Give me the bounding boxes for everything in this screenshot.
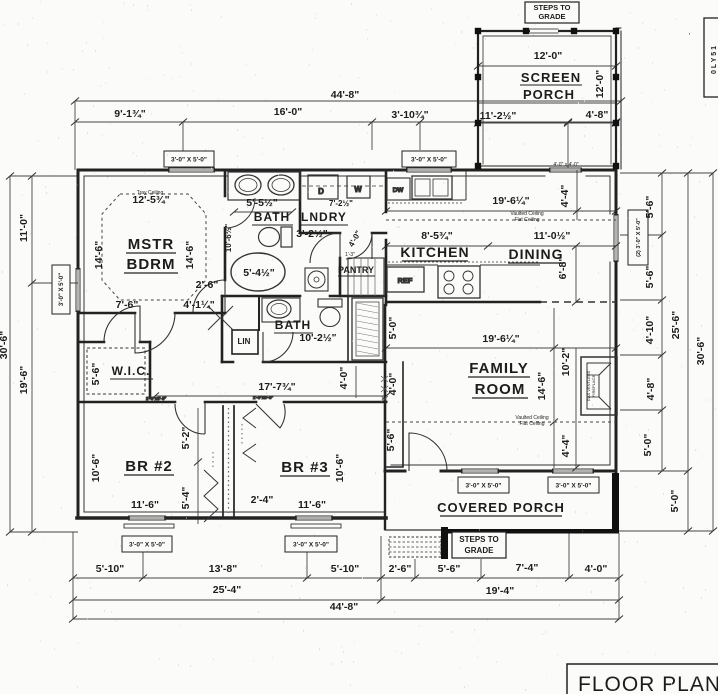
- window labels covered porch: [458, 477, 509, 493]
- svg-text:11'-0": 11'-0": [18, 214, 30, 242]
- wall bath2 bottom: [222, 361, 386, 364]
- svg-text:12'-0": 12'-0": [594, 70, 606, 99]
- svg-text:3'-0" X 5'-0": 3'-0" X 5'-0": [129, 541, 165, 548]
- svg-text:ROOM: ROOM: [475, 381, 526, 398]
- mbath vanity counter: [228, 172, 300, 200]
- mbath sink 2: [268, 175, 294, 195]
- svg-text:DINING: DINING: [509, 246, 564, 262]
- svg-text:44'-8": 44'-8": [330, 601, 359, 613]
- svg-text:KITCHEN: KITCHEN: [400, 244, 469, 260]
- svg-text:': ': [689, 33, 690, 40]
- window kitchen top: [406, 167, 452, 169]
- svg-text:4'-0" x 4'-0": 4'-0" x 4'-0": [553, 162, 578, 168]
- closet bifold BR2: [204, 470, 218, 522]
- screen porch line under PORCH: [478, 102, 616, 104]
- dim 8-5 / 11-0 row: [386, 245, 616, 247]
- svg-text:Tray Ceiling: Tray Ceiling: [137, 190, 164, 196]
- wall top exterior: [78, 169, 616, 172]
- covered porch bottom slab edge: [443, 529, 619, 534]
- window label BR2 bottom: [122, 536, 172, 552]
- right dim column inner: [661, 173, 663, 471]
- revision block top right: [704, 18, 718, 97]
- svg-text:PANTRY: PANTRY: [338, 265, 374, 275]
- sill BR2: [124, 524, 174, 528]
- wall bath / laundry vertical: [299, 170, 302, 233]
- wall mstr bdrm bottom: [78, 312, 225, 315]
- dimension lines group: [6, 63, 717, 623]
- svg-text:5'-6": 5'-6": [644, 266, 656, 289]
- dim line top row2: [75, 121, 616, 123]
- svg-text:3'-0" X 5'-0": 3'-0" X 5'-0": [556, 482, 592, 489]
- svg-text:6'-8": 6'-8": [557, 257, 569, 280]
- svg-text:GRADE: GRADE: [538, 12, 565, 21]
- BR2 dim vertical 5-2/5-4: [197, 408, 199, 524]
- steps to grade box top: [525, 2, 579, 23]
- svg-text:PORCH: PORCH: [523, 87, 575, 102]
- svg-text:16'-0": 16'-0": [274, 106, 303, 118]
- svg-text:4'-0": 4'-0": [338, 367, 350, 390]
- svg-text:19'-4": 19'-4": [486, 585, 515, 597]
- wall left exterior: [77, 170, 80, 517]
- svg-text:19'-6¼": 19'-6¼": [482, 333, 519, 345]
- svg-text:5'-6": 5'-6": [644, 196, 656, 219]
- bifold doors mbath entry: [208, 306, 233, 330]
- svg-text:0 L Y 5 1: 0 L Y 5 1: [711, 46, 718, 74]
- dim 5-5 master bath: [234, 211, 292, 213]
- door family to porch: [409, 433, 447, 471]
- svg-text:30'-6": 30'-6": [0, 331, 10, 360]
- windows: [76, 168, 618, 528]
- svg-text:LNDRY: LNDRY: [301, 210, 347, 224]
- svg-text:2'-4": 2'-4": [251, 494, 274, 506]
- svg-text:5'-0": 5'-0": [669, 490, 681, 513]
- svg-text:4'-8": 4'-8": [645, 378, 657, 401]
- svg-text:SCREEN: SCREEN: [521, 70, 581, 85]
- svg-text:FIREPLACE: FIREPLACE: [591, 375, 596, 398]
- svg-text:3'-0" X 5'-0": 3'-0" X 5'-0": [466, 482, 502, 489]
- svg-text:14'-6": 14'-6": [184, 241, 196, 270]
- left dim 11-0 / 19-6: [31, 176, 33, 532]
- svg-text:11'-6": 11'-6": [131, 499, 159, 511]
- svg-text:8'-5¾": 8'-5¾": [421, 230, 452, 242]
- wall hall bottom / bedrooms top: [78, 401, 386, 404]
- kitchen fridge REF: [387, 267, 424, 292]
- wall laundry bottom: [302, 232, 386, 235]
- bottom dim row1: [73, 577, 619, 579]
- exterior wall inner face lines: [84, 175, 610, 177]
- svg-text:25'-6": 25'-6": [670, 311, 682, 340]
- svg-text:(2) 3'-0" X 5'-0": (2) 3'-0" X 5'-0": [636, 218, 642, 257]
- door mstr bath: [193, 280, 225, 312]
- bottom dim row3 44-8: [73, 618, 619, 620]
- door BR2: [175, 402, 205, 434]
- svg-text:FLOOR PLAN: FLOOR PLAN: [578, 673, 718, 694]
- window BR3 bottom: [295, 515, 333, 517]
- door laundry-hall: [310, 233, 340, 263]
- door mstr to mbath arc: [225, 198, 255, 228]
- svg-text:7'-2½": 7'-2½": [329, 199, 353, 208]
- wall mstr bdrm / bath vertical: [224, 170, 227, 280]
- svg-text:11'-0½": 11'-0½": [534, 230, 571, 242]
- water heater: [305, 268, 328, 291]
- kitchen dishwasher DW: [387, 178, 410, 200]
- svg-text:3'-0" X 5'-0": 3'-0" X 5'-0": [171, 156, 207, 163]
- svg-text:5'-6": 5'-6": [385, 429, 397, 452]
- svg-text:DW: DW: [393, 187, 405, 194]
- window label left: [52, 265, 70, 314]
- svg-text:LIN: LIN: [238, 337, 251, 346]
- svg-text:7'-6": 7'-6": [116, 299, 139, 311]
- wall kitchen left vertical: [385, 170, 388, 305]
- mbath toilet: [281, 227, 292, 247]
- svg-text:5'-4": 5'-4": [180, 487, 192, 510]
- svg-text:MSTR: MSTR: [128, 236, 175, 253]
- laundry washer W: [347, 176, 370, 198]
- window left mstr: [75, 268, 77, 312]
- svg-text:17'-7¾": 17'-7¾": [258, 381, 295, 393]
- window mstr top: [168, 167, 215, 169]
- window family bottom 1: [461, 468, 499, 470]
- kitchen double sink: [412, 176, 452, 199]
- svg-text:BR #3: BR #3: [281, 459, 329, 476]
- closet divider walls BR2/BR3: [223, 406, 234, 518]
- kitchen counter dotted bottom: [388, 261, 538, 263]
- door dining to porch: [549, 167, 582, 169]
- kitchen range: [438, 266, 480, 298]
- kitchen counter dotted: [388, 202, 464, 204]
- svg-text:12'-0": 12'-0": [534, 50, 563, 62]
- screen porch posts: [475, 28, 481, 34]
- door mstr bdrm: [135, 313, 175, 353]
- window label top mstr: [164, 151, 214, 167]
- wall pantry left: [339, 258, 342, 296]
- right dim column mid 25-6: [687, 173, 689, 531]
- bath2 tub hatched: [352, 298, 383, 360]
- svg-text:4'-10": 4'-10": [644, 316, 656, 345]
- svg-text:10'-6": 10'-6": [334, 454, 346, 483]
- svg-text:4'-1¼": 4'-1¼": [183, 299, 214, 311]
- svg-text:9'-1¾": 9'-1¾": [114, 108, 145, 120]
- pantry shelves: [348, 258, 384, 296]
- window label top kitchen: [402, 151, 456, 167]
- fixtures: [87, 171, 617, 415]
- kitchen counter bottom edge: [386, 264, 438, 266]
- bath2 vanity: [262, 298, 300, 322]
- svg-text:10'-6½": 10'-6½": [224, 224, 233, 253]
- svg-text:4'-4": 4'-4": [559, 185, 571, 208]
- svg-text:2'-6″x6'-8″: 2'-6″x6'-8″: [146, 396, 167, 401]
- vaulted ceiling line family room: [386, 421, 616, 423]
- svg-text:STEPS TO: STEPS TO: [459, 535, 498, 544]
- screen porch dim 12ft: [478, 65, 616, 67]
- svg-text:2'-6": 2'-6": [196, 279, 219, 291]
- svg-text:5'-10": 5'-10": [331, 563, 360, 575]
- sill BR3: [291, 524, 341, 528]
- bath2 toilet: [318, 299, 342, 307]
- steps to grade box bottom: [452, 532, 506, 558]
- svg-text:44'-8": 44'-8": [331, 89, 360, 101]
- svg-text:W.I.C.: W.I.C.: [112, 364, 151, 378]
- svg-text:COVERED PORCH: COVERED PORCH: [437, 500, 565, 515]
- svg-text:3'-10¾": 3'-10¾": [391, 109, 428, 121]
- wall bath2 top: [222, 295, 386, 298]
- vaulted ceiling line kitchen-dining: [386, 219, 616, 221]
- bottom dim row2 25-4 / 19-4: [73, 599, 619, 601]
- svg-text:2'-6″x6'-8″: 2'-6″x6'-8″: [253, 395, 274, 400]
- wic shelves dashed: [87, 348, 145, 394]
- svg-text:10'-6": 10'-6": [90, 454, 102, 483]
- screen porch inner face lines: [483, 36, 611, 164]
- svg-text:D: D: [318, 187, 324, 196]
- closet bifold BR3: [243, 408, 256, 462]
- wall family room left inner line: [387, 362, 403, 467]
- family room dim 19-6: [386, 347, 616, 349]
- interior walls: [78, 170, 616, 518]
- wall cavity hatch: [381, 376, 388, 402]
- svg-text:BR #2: BR #2: [125, 458, 173, 475]
- wall bath2 right tub wall: [347, 296, 349, 360]
- screen porch dim row 11-2 / 4-8: [478, 122, 616, 124]
- svg-text:19'-6": 19'-6": [18, 366, 30, 395]
- svg-text:3'-0" X 5'-0": 3'-0" X 5'-0": [411, 156, 447, 163]
- wall right porch post thick: [612, 473, 619, 533]
- doors: [104, 233, 447, 522]
- svg-text:BDRM: BDRM: [127, 256, 176, 273]
- svg-text:4'-4": 4'-4": [560, 435, 572, 458]
- svg-text:FAMILY: FAMILY: [469, 360, 529, 377]
- svg-text:10'-2": 10'-2": [560, 348, 572, 377]
- kitchen counter edge top: [386, 199, 466, 201]
- wall bath2 inner left vertical: [258, 296, 260, 330]
- svg-text:5'-2": 5'-2": [180, 427, 192, 450]
- right dim extensions: [620, 172, 713, 174]
- mbath sink 1: [235, 175, 261, 195]
- steps to grade bottom hatch: [389, 527, 448, 559]
- window BR2 bottom: [128, 515, 166, 517]
- window label right (2): [628, 210, 648, 265]
- wall bottom exterior left part: [77, 516, 386, 520]
- dim 6-8 vertical: [575, 246, 577, 302]
- svg-text:REF: REF: [398, 276, 413, 285]
- door wic: [104, 306, 140, 342]
- svg-text:11'-2½": 11'-2½": [480, 110, 517, 122]
- dim 4-4 vertical top right: [576, 170, 578, 220]
- window dining right: [613, 214, 615, 262]
- wall kitchen / family room: [386, 301, 540, 303]
- svg-text:5'-4½": 5'-4½": [243, 267, 274, 279]
- closet track dotted BR2: [212, 452, 214, 470]
- svg-text:25'-4": 25'-4": [213, 584, 242, 596]
- mbath tub: [231, 253, 285, 291]
- svg-text:5'-6": 5'-6": [90, 363, 102, 386]
- laundry shelf dashed: [302, 185, 384, 187]
- svg-text:3'-0" X 5'-0": 3'-0" X 5'-0": [59, 273, 65, 306]
- wall family room left vertical: [384, 305, 387, 471]
- covered porch left edge / BR3 right wall lower: [384, 471, 386, 529]
- svg-text:Flat Ceiling: Flat Ceiling: [514, 217, 539, 223]
- dim 4-0 vertical near pantry: [355, 366, 357, 398]
- svg-text:GRADE: GRADE: [465, 546, 495, 555]
- exterior walls: [77, 170, 619, 534]
- lin closet: [232, 330, 258, 354]
- right dim column outer 30-6: [712, 173, 714, 531]
- laundry dryer D: [308, 175, 338, 199]
- svg-text:14'-6": 14'-6": [536, 372, 548, 401]
- kitchen-dining dim 19-6 top: [386, 210, 616, 212]
- wall bath2 left vertical: [221, 296, 224, 362]
- screen porch outer line right: [616, 28, 621, 169]
- tray ceiling mstr bdrm: [102, 194, 206, 300]
- svg-text:1'-3": 1'-3": [345, 252, 355, 258]
- wall right exterior: [615, 170, 618, 473]
- door BR3: [256, 404, 285, 428]
- svg-text:5'-0": 5'-0": [387, 317, 399, 340]
- floor plan title box: [567, 664, 718, 694]
- screen porch walls: [478, 31, 616, 169]
- fireplace: [581, 357, 617, 415]
- svg-text:5'-5½": 5'-5½": [246, 197, 277, 209]
- svg-text:3'-2½": 3'-2½": [296, 228, 327, 240]
- bath2 sink: [267, 300, 291, 318]
- svg-text:4'-0": 4'-0": [585, 563, 608, 575]
- screen porch: [475, 28, 621, 169]
- svg-text:Flat Ceiling: Flat Ceiling: [519, 421, 544, 427]
- svg-text:BATH: BATH: [275, 318, 311, 332]
- window label BR3 bottom: [285, 536, 337, 552]
- svg-text:3'-0" X 5'-0": 3'-0" X 5'-0": [293, 541, 329, 548]
- screen porch top opening to steps: [530, 28, 558, 34]
- svg-text:4'-0": 4'-0": [387, 373, 399, 396]
- svg-text:10'-2½": 10'-2½": [299, 332, 336, 344]
- svg-text:BATH: BATH: [254, 210, 290, 224]
- hall dim 17-7: [155, 395, 386, 397]
- svg-text:STEPS TO: STEPS TO: [534, 3, 571, 12]
- wall wic right vertical: [149, 342, 152, 398]
- dim extension verticals top: [74, 101, 76, 170]
- left dim 30ft-6: [9, 176, 11, 532]
- bottom dim extension verticals: [72, 532, 74, 619]
- svg-text:5'-0": 5'-0": [642, 434, 654, 457]
- screen porch floor line: [478, 165, 616, 167]
- svg-text:13'-8": 13'-8": [209, 563, 238, 575]
- door pantry: [346, 233, 372, 259]
- wall dining dashed ceiling break: [540, 301, 616, 303]
- window family bottom 2: [552, 468, 594, 470]
- dim line 44ft-8in top: [75, 100, 621, 102]
- svg-text:30'-6": 30'-6": [695, 337, 707, 366]
- svg-text:2'-6": 2'-6": [389, 563, 412, 575]
- svg-text:7'-4": 7'-4": [516, 562, 539, 574]
- wall family room bottom: [385, 470, 616, 473]
- family room vertical dims: [553, 308, 555, 468]
- svg-text:5'-10": 5'-10": [96, 563, 125, 575]
- svg-text:11'-6": 11'-6": [298, 499, 326, 511]
- svg-text:5'-6": 5'-6": [438, 563, 461, 575]
- closet track dotted BR3: [241, 424, 243, 446]
- door bath2: [263, 332, 293, 362]
- svg-text:4'-8": 4'-8": [586, 109, 609, 121]
- wall wic top: [78, 341, 150, 344]
- svg-text:14'-6": 14'-6": [93, 241, 105, 270]
